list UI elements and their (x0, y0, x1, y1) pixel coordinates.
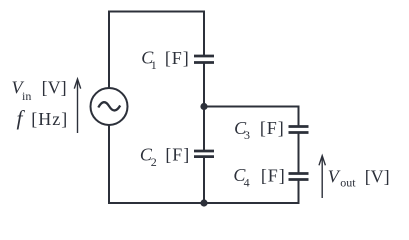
label C2 [F] (140, 144, 190, 169)
label C1 [F] (141, 48, 189, 72)
svg-text:[V]: [V] (42, 77, 67, 97)
svg-text:[F]: [F] (261, 165, 286, 185)
wire C2 branch upper (203, 107, 205, 152)
wire C1 branch upper (203, 12, 205, 57)
label f [Hz] (17, 106, 69, 130)
label C3 [F] (234, 118, 285, 142)
wire right vertical lower (298, 180, 300, 205)
capacitor C3 (289, 127, 309, 133)
capacitor C1 (194, 56, 214, 63)
svg-text:3: 3 (244, 128, 250, 142)
arrow Vout direction (319, 156, 325, 198)
label Vout [V] (328, 166, 390, 189)
svg-text:[V]: [V] (365, 167, 390, 187)
svg-text:1: 1 (151, 58, 157, 72)
svg-text:V: V (328, 166, 341, 186)
wire bottom horizontal (108, 202, 300, 204)
svg-text:4: 4 (244, 176, 250, 190)
wire left vertical upper (108, 11, 110, 89)
label C4 [F] (233, 165, 285, 189)
svg-text:f: f (17, 106, 26, 130)
capacitor C4 (289, 174, 309, 180)
capacitor C2 (194, 151, 214, 157)
node junction top (200, 103, 207, 110)
wire C2 branch lower (203, 157, 205, 203)
svg-text:[Hz]: [Hz] (31, 109, 68, 129)
svg-text:out: out (340, 176, 356, 190)
voltage source U1 (91, 88, 128, 125)
label Vin [V] (12, 77, 67, 103)
svg-text:[F]: [F] (165, 48, 190, 68)
node junction bottom (200, 199, 207, 206)
wire middle horizontal (204, 106, 299, 108)
wire right vertical upper (298, 106, 300, 127)
wire right vertical middle (298, 133, 300, 174)
wire C1 branch lower (203, 63, 205, 107)
svg-text:[F]: [F] (260, 118, 285, 138)
wire left vertical lower (108, 125, 110, 204)
svg-text:in: in (22, 89, 31, 103)
arrow Vin direction (74, 79, 80, 133)
svg-text:2: 2 (151, 155, 157, 169)
wire top horizontal (108, 11, 205, 13)
svg-text:[F]: [F] (165, 145, 190, 165)
